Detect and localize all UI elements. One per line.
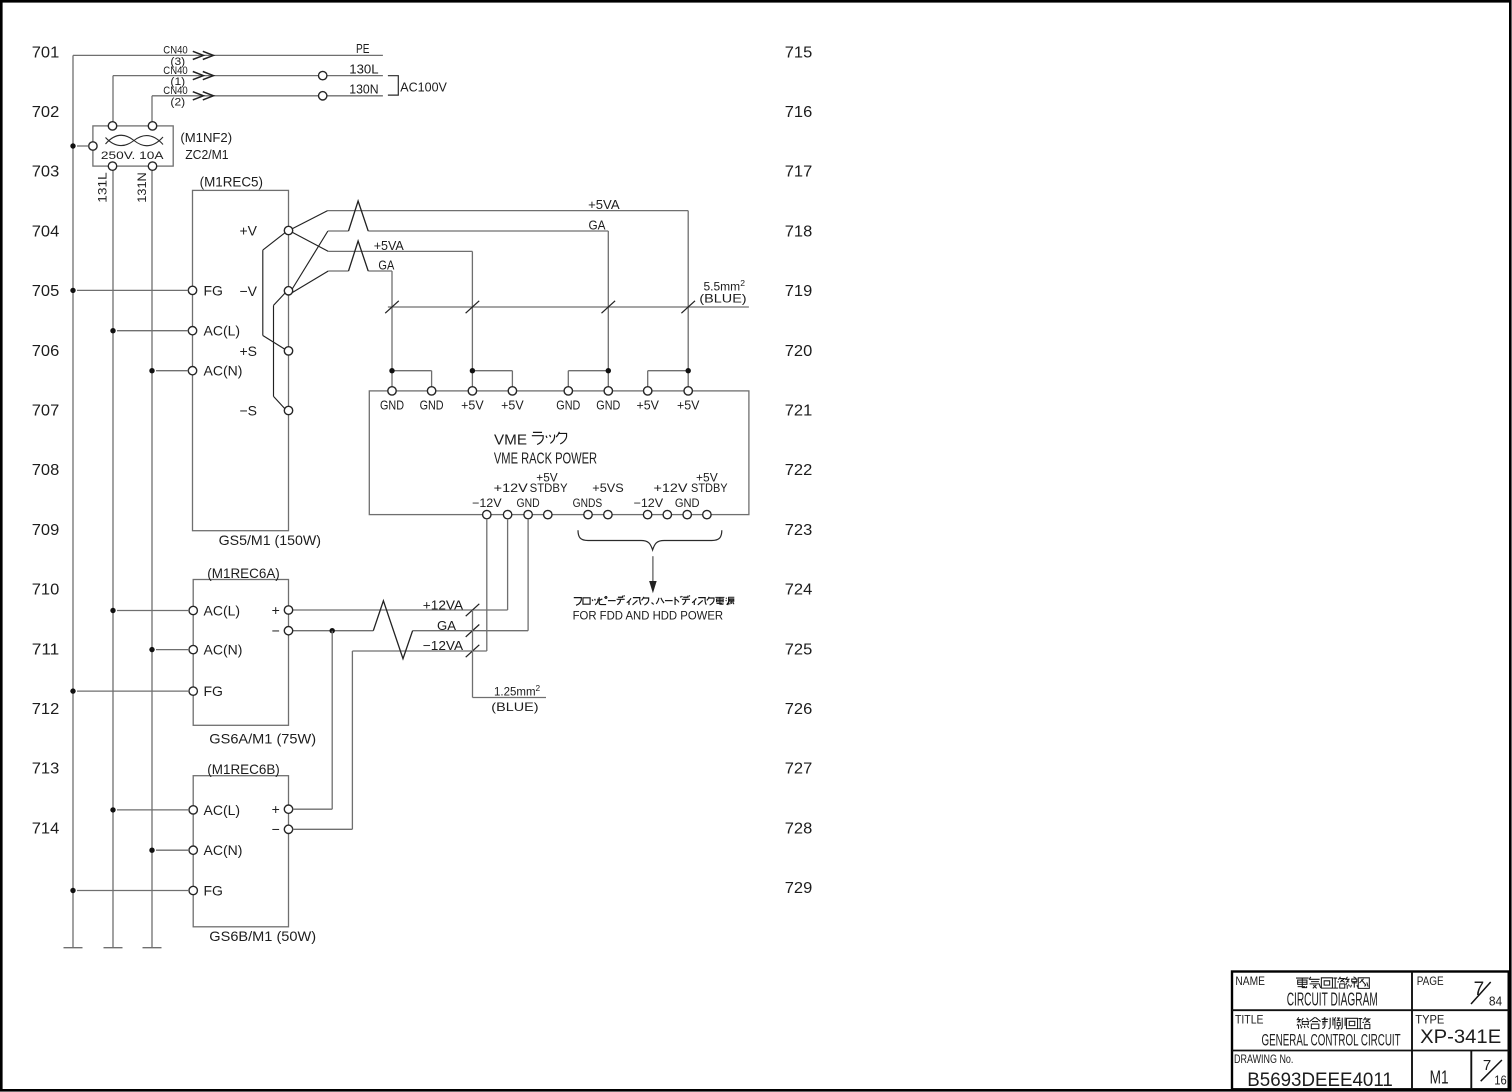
svg-text:721: 721 <box>785 403 813 420</box>
svg-text:XP-341E: XP-341E <box>1420 1027 1501 1048</box>
svg-text:AC(N): AC(N) <box>204 842 243 858</box>
svg-text:+5VA: +5VA <box>588 197 620 212</box>
svg-text:GNDS: GNDS <box>573 496 603 510</box>
svg-text:701: 701 <box>32 44 60 61</box>
svg-text:722: 722 <box>785 462 813 479</box>
svg-text:+: + <box>272 602 280 618</box>
svg-text:+5V: +5V <box>501 399 524 413</box>
svg-text:(M1NF2): (M1NF2) <box>180 130 232 145</box>
svg-text:+5V: +5V <box>461 399 484 413</box>
svg-text:(2): (2) <box>170 96 185 108</box>
svg-text:AC(N): AC(N) <box>204 363 243 379</box>
svg-text:+5V: +5V <box>536 471 557 485</box>
svg-text:−12V: −12V <box>472 496 502 510</box>
svg-text:CN40: CN40 <box>163 85 187 97</box>
svg-text:PAGE: PAGE <box>1417 974 1444 988</box>
svg-text:(BLUE): (BLUE) <box>491 700 538 714</box>
svg-text:GND: GND <box>675 496 700 510</box>
svg-text:705: 705 <box>32 283 60 300</box>
svg-text:+: + <box>272 801 280 817</box>
svg-text:727: 727 <box>785 761 813 778</box>
svg-text:B5693DEEE4011: B5693DEEE4011 <box>1247 1070 1393 1091</box>
svg-text:−V: −V <box>239 283 257 299</box>
svg-text:(M1REC6A): (M1REC6A) <box>207 565 279 581</box>
svg-text:+V: +V <box>239 223 257 239</box>
svg-text:250V. 10A: 250V. 10A <box>101 150 164 162</box>
svg-text:728: 728 <box>785 820 813 837</box>
svg-text:GND: GND <box>517 496 540 510</box>
svg-text:+12V: +12V <box>494 481 528 495</box>
svg-text:GS6A/M1 (75W): GS6A/M1 (75W) <box>209 730 316 746</box>
svg-text:FG: FG <box>204 883 223 899</box>
svg-text:131L: 131L <box>96 172 110 203</box>
svg-text:GND: GND <box>420 399 444 413</box>
svg-text:−: − <box>272 821 280 837</box>
svg-text:131N: 131N <box>135 172 149 202</box>
svg-text:726: 726 <box>785 701 813 718</box>
svg-text:717: 717 <box>785 164 813 181</box>
svg-text:AC(N): AC(N) <box>204 642 243 658</box>
svg-text:720: 720 <box>785 343 813 360</box>
svg-text:+12VA: +12VA <box>423 598 464 613</box>
svg-text:707: 707 <box>32 403 60 420</box>
svg-text:723: 723 <box>785 522 813 539</box>
svg-text:GS5/M1 (150W): GS5/M1 (150W) <box>219 532 321 548</box>
svg-text:M1: M1 <box>1430 1068 1449 1088</box>
svg-text:−12V: −12V <box>634 496 664 510</box>
svg-text:714: 714 <box>32 820 60 837</box>
svg-text:725: 725 <box>785 641 813 658</box>
svg-text:−12VA: −12VA <box>423 638 464 653</box>
svg-text:718: 718 <box>785 223 813 240</box>
svg-text:702: 702 <box>32 104 60 121</box>
svg-text:GND: GND <box>556 399 580 413</box>
svg-text:+5VS: +5VS <box>592 481 623 495</box>
svg-text:GS6B/M1 (50W): GS6B/M1 (50W) <box>209 928 316 944</box>
svg-text:(BLUE): (BLUE) <box>699 291 746 305</box>
svg-text:−: − <box>272 623 280 639</box>
svg-text:FOR FDD AND HDD POWER: FOR FDD AND HDD POWER <box>573 609 724 623</box>
svg-text:PE: PE <box>356 41 370 56</box>
svg-text:(M1REC6B): (M1REC6B) <box>207 761 279 777</box>
svg-text:−S: −S <box>239 403 257 419</box>
svg-text:FG: FG <box>204 683 223 699</box>
svg-text:GA: GA <box>437 618 456 633</box>
svg-text:AC100V: AC100V <box>400 79 447 94</box>
svg-text:+S: +S <box>239 343 257 359</box>
svg-text:GND: GND <box>380 399 404 413</box>
svg-text:703: 703 <box>32 164 60 181</box>
svg-text:(M1REC5): (M1REC5) <box>200 173 263 189</box>
svg-text:GENERAL CONTROL CIRCUIT: GENERAL CONTROL CIRCUIT <box>1262 1031 1401 1050</box>
svg-text:VME RACK POWER: VME RACK POWER <box>494 451 597 468</box>
svg-text:AC(L): AC(L) <box>204 603 241 619</box>
svg-text:716: 716 <box>785 104 813 121</box>
svg-text:16: 16 <box>1494 1073 1507 1088</box>
svg-text:710: 710 <box>32 582 60 599</box>
svg-text:VME: VME <box>494 431 527 448</box>
svg-text:84: 84 <box>1489 994 1502 1009</box>
svg-text:TITLE: TITLE <box>1235 1013 1264 1027</box>
svg-text:DRAWING No.: DRAWING No. <box>1234 1052 1293 1066</box>
svg-text:+5VA: +5VA <box>374 238 404 253</box>
svg-text:FG: FG <box>204 282 223 298</box>
svg-text:7: 7 <box>1474 979 1485 1000</box>
svg-text:130N: 130N <box>349 82 378 97</box>
svg-text:130L: 130L <box>349 61 378 76</box>
svg-text:AC(L): AC(L) <box>204 802 241 818</box>
svg-text:AC(L): AC(L) <box>204 323 241 339</box>
svg-text:CN40: CN40 <box>163 45 187 57</box>
svg-text:ZC2/M1: ZC2/M1 <box>185 147 228 162</box>
svg-text:GA: GA <box>378 258 394 273</box>
svg-text:NAME: NAME <box>1235 974 1265 988</box>
svg-text:706: 706 <box>32 343 60 360</box>
svg-text:709: 709 <box>32 522 60 539</box>
svg-text:713: 713 <box>32 761 60 778</box>
svg-text:GND: GND <box>596 399 620 413</box>
svg-text:GA: GA <box>589 218 606 233</box>
svg-text:704: 704 <box>32 223 60 240</box>
svg-text:+5V: +5V <box>696 471 718 485</box>
svg-text:CN40: CN40 <box>163 65 187 77</box>
svg-text:712: 712 <box>32 701 60 718</box>
svg-text:715: 715 <box>785 44 813 61</box>
svg-text:729: 729 <box>785 880 813 897</box>
svg-text:+5V: +5V <box>636 399 659 413</box>
svg-text:+5V: +5V <box>677 399 700 413</box>
svg-text:TYPE: TYPE <box>1415 1013 1444 1027</box>
svg-text:724: 724 <box>785 582 813 599</box>
svg-text:+12V: +12V <box>654 481 688 495</box>
svg-text:708: 708 <box>32 462 60 479</box>
svg-text:711: 711 <box>32 641 60 658</box>
svg-text:719: 719 <box>785 283 813 300</box>
svg-text:CIRCUIT DIAGRAM: CIRCUIT DIAGRAM <box>1287 990 1378 1010</box>
